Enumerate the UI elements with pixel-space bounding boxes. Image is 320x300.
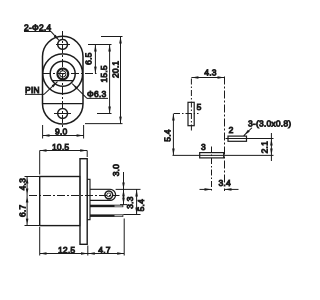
pcb pad 5 label [197, 102, 202, 112]
svg-text:3.4: 3.4 [219, 178, 231, 188]
pcb main vertical centerline [224, 77, 226, 192]
extension line bottom hole center [97, 113, 112, 115]
pcb pad 5 horizontal centerline [174, 113, 199, 115]
pcb pad 3 horizontal centerline and extensions [173, 154, 274, 156]
extension line flange bottom [85, 123, 123, 125]
svg-text:15.5: 15.5 [99, 65, 109, 82]
pcb pad 2 label [229, 125, 234, 135]
side view body rectangle [40, 177, 80, 226]
front view center pin circle [60, 71, 66, 77]
dimension 6.5 [84, 45, 96, 74]
label 3-(3.0x0.8) with leader [244, 118, 292, 135]
front view barrel circle phi6.3 [50, 61, 75, 86]
svg-text:3-(3.0x0.8): 3-(3.0x0.8) [248, 118, 291, 128]
dimension 3.4 pcb [200, 178, 239, 189]
svg-text:6.5: 6.5 [84, 52, 94, 64]
pcb pad 3 label [201, 142, 206, 152]
front view body circle (large) [43, 54, 83, 94]
dimension 15.5 [99, 45, 109, 114]
front view flange bottom tangent chord [43, 103, 83, 105]
side view pin A [90, 205, 123, 208]
dimension 4.3 pcb [191, 67, 224, 77]
dimension 5.4 pcb [162, 114, 173, 156]
front view horizontal centerline [43, 73, 97, 75]
svg-text:2.1: 2.1 [260, 141, 270, 153]
svg-text:12.5: 12.5 [58, 245, 75, 255]
dimension 3.3 side [120, 190, 135, 209]
dimension 4.3 side [18, 177, 40, 196]
front view flange stadium outline [43, 36, 84, 124]
bottom hole horizontal crosshair [54, 113, 71, 115]
svg-text:5.4: 5.4 [136, 199, 146, 211]
side view flange plate [80, 159, 87, 245]
dimension 20.1 [111, 37, 121, 124]
extension line flange top [101, 36, 123, 38]
front view pin collar circle [57, 69, 68, 80]
svg-text:20.1: 20.1 [111, 61, 121, 78]
pcb pad 5 [188, 102, 194, 125]
svg-text:2: 2 [229, 125, 234, 135]
side view lug hole [105, 191, 113, 199]
svg-text:4.7: 4.7 [98, 245, 110, 255]
label PIN with leader [25, 82, 58, 95]
svg-text:10.5: 10.5 [52, 142, 69, 152]
label 2-phi2.4 with leader [24, 23, 59, 41]
svg-text:9.0: 9.0 [55, 127, 67, 137]
dimension 2.1 pcb [260, 133, 272, 161]
svg-text:4.3: 4.3 [18, 178, 28, 190]
dimension 5.4 side [123, 190, 146, 215]
pcb pad 2 horizontal centerline and extension [226, 138, 274, 140]
svg-text:Φ6.3: Φ6.3 [87, 89, 106, 99]
side view solder lug [90, 189, 116, 200]
dimension 12.5 [40, 227, 88, 256]
svg-text:3.3: 3.3 [125, 196, 135, 208]
top hole horizontal crosshair [56, 44, 70, 46]
dimension 3.0 side [111, 164, 141, 190]
dimension 4.7 [88, 219, 124, 256]
front view bottom mounting hole [58, 109, 68, 119]
svg-text:5: 5 [197, 102, 202, 112]
front view top mounting hole [58, 40, 68, 50]
svg-text:PIN: PIN [25, 85, 40, 95]
side view horizontal centerline [29, 195, 120, 197]
extension line top hole center [88, 44, 112, 46]
svg-text:6.7: 6.7 [18, 205, 28, 217]
svg-text:5.4: 5.4 [162, 129, 172, 141]
svg-text:3.0: 3.0 [111, 164, 121, 176]
side view pin B [90, 214, 123, 217]
front view barrel chord line [52, 80, 73, 82]
svg-text:4.3: 4.3 [204, 67, 216, 77]
pcb pad 3 [200, 153, 224, 158]
svg-text:3: 3 [201, 142, 206, 152]
side view boss [87, 179, 90, 219]
label phi6.3 with leader [72, 84, 108, 99]
pcb pad 3 vertical centerline [211, 147, 213, 192]
dimension 10.5 [40, 142, 87, 175]
pcb pad 2 [228, 136, 247, 141]
dimension 6.7 side [18, 196, 40, 226]
dimension 9.0 [43, 125, 84, 139]
pcb pad 5 vertical centerline [190, 79, 192, 132]
front view vertical centerline [62, 31, 64, 129]
